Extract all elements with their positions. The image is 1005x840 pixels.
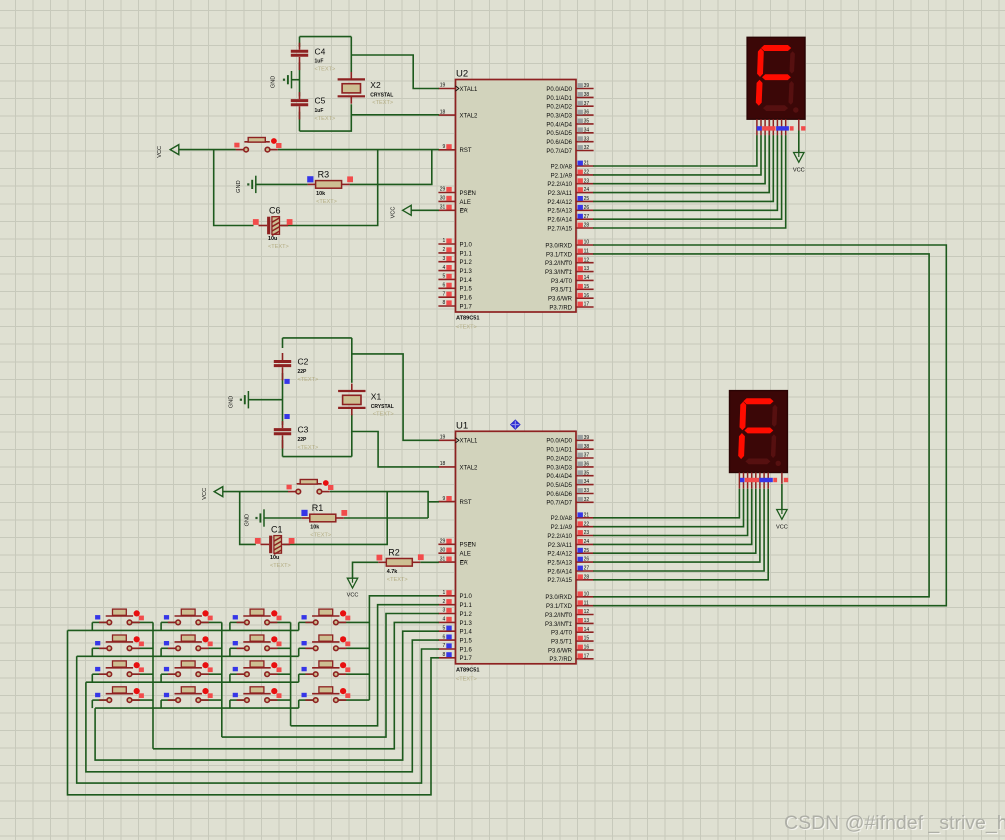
svg-text:P1.4: P1.4 [460, 278, 473, 284]
logic probe square C2 [284, 379, 289, 384]
svg-text:<TEXT>: <TEXT> [270, 563, 291, 569]
wire: keypad column 3 vertical [290, 622, 292, 725]
svg-text:U1: U1 [456, 420, 468, 431]
svg-text:P2.1/A9: P2.1/A9 [551, 525, 573, 531]
crystal X1 [338, 384, 394, 418]
svg-text:P3.1/TXD: P3.1/TXD [546, 604, 573, 610]
wire stub row3 col1 [91, 674, 93, 682]
svg-text:XTAL1: XTAL1 [460, 87, 479, 93]
wire: keypad row 1 line [68, 629, 299, 631]
svg-text:P1.5: P1.5 [460, 287, 473, 293]
wire P2.5 net (U1-display2) [593, 489, 760, 562]
button keypad row1 col2 [164, 609, 213, 625]
display1 pin stubs [757, 119, 799, 135]
svg-text:XTAL1: XTAL1 [460, 439, 479, 445]
wire: U2 XTAL2 net [351, 104, 439, 115]
svg-text:13: 13 [584, 618, 590, 624]
wire stub row1 col4 [298, 622, 300, 630]
svg-text:34: 34 [584, 479, 590, 485]
svg-text:24: 24 [584, 187, 590, 193]
wire: display1 common to VCC [798, 131, 800, 153]
resistor R2 [377, 548, 424, 583]
svg-text:3: 3 [443, 608, 446, 614]
svg-text:P3.6/WR: P3.6/WR [548, 297, 573, 303]
wire row3 col2 right [201, 673, 222, 675]
wire stub row1 col2 [160, 622, 162, 630]
svg-text:36: 36 [584, 110, 590, 116]
svg-text:P0.4/AD4: P0.4/AD4 [546, 122, 572, 128]
svg-text:P2.0/A8: P2.0/A8 [551, 516, 573, 522]
svg-text:33: 33 [584, 136, 590, 142]
svg-text:1uF: 1uF [315, 59, 324, 65]
svg-text:5: 5 [443, 625, 446, 631]
svg-text:P1.2: P1.2 [460, 612, 473, 618]
button keypad row3 col2 [164, 661, 213, 677]
wire: P1.2 to keypad column 2 [222, 614, 439, 738]
wire: keypad column 1 vertical [152, 622, 154, 748]
svg-text:P2.0/A8: P2.0/A8 [551, 164, 573, 170]
wire P2.4 net (U2-display1) [593, 135, 773, 201]
wire P2.1 net (U2-display1) [593, 135, 761, 175]
ground (R3) [236, 176, 256, 193]
svg-text:23: 23 [584, 530, 590, 536]
svg-text:VCC: VCC [347, 593, 359, 599]
svg-text:P2.5/A13: P2.5/A13 [547, 209, 572, 215]
svg-text:<TEXT>: <TEXT> [310, 533, 331, 539]
svg-text:12: 12 [584, 609, 590, 615]
svg-text:VCC: VCC [157, 146, 163, 158]
wire: U2 XTAL top rail [300, 36, 352, 38]
wire: C6 left drop [214, 150, 254, 226]
svg-text:P3.5/T1: P3.5/T1 [551, 640, 573, 646]
svg-text:P1.6: P1.6 [460, 296, 473, 302]
power VCC (U2 reset) [157, 145, 179, 158]
svg-text:30: 30 [440, 196, 446, 202]
svg-text:8: 8 [443, 300, 446, 306]
wire: C6 right to RST [281, 150, 378, 226]
svg-text:X2: X2 [370, 80, 381, 90]
wire row2 col1 right [133, 647, 154, 649]
wire: display2 common to VCC [781, 484, 783, 510]
svg-text:RST: RST [460, 500, 472, 506]
svg-text:38: 38 [584, 444, 590, 450]
logic probe square C3 [284, 414, 289, 419]
wire: keypad row 4 line [95, 707, 299, 709]
svg-text:P2.3/A11: P2.3/A11 [548, 543, 573, 549]
svg-text:GND: GND [229, 396, 235, 408]
ground (U1 caps) [229, 391, 249, 408]
svg-text:22: 22 [584, 170, 590, 176]
svg-text:12: 12 [584, 257, 590, 263]
display1 logic state squares [757, 126, 806, 130]
wire: U1 XTAL2 net [351, 414, 353, 457]
power VCC (R2) [347, 578, 359, 598]
svg-text:P3.2/INT0: P3.2/INT0 [545, 613, 573, 619]
wire P2.0 net (U2-display1) [593, 135, 757, 166]
svg-text:P0.7/AD7: P0.7/AD7 [546, 501, 572, 507]
svg-text:<TEXT>: <TEXT> [315, 67, 336, 73]
wire row2 col4 right [339, 647, 370, 649]
svg-text:29: 29 [440, 187, 446, 193]
wire stub row2 col2 [160, 648, 162, 656]
svg-text:26: 26 [584, 205, 590, 211]
svg-text:<TEXT>: <TEXT> [456, 325, 477, 331]
wire P2.6 net (U2-display1) [593, 135, 782, 219]
ground (U2 caps) [271, 71, 292, 88]
wire: P1.3 to keypad column 1 [153, 622, 439, 748]
svg-text:39: 39 [584, 435, 590, 441]
wire P2.1 net (U1-display2) [593, 489, 743, 527]
svg-text:XTAL2: XTAL2 [460, 465, 479, 471]
svg-text:CRYSTAL: CRYSTAL [371, 404, 394, 410]
svg-text:C2: C2 [298, 357, 309, 367]
svg-text:PSEN: PSEN [460, 543, 476, 549]
svg-text:P2.4/A12: P2.4/A12 [547, 552, 572, 558]
button (U2 reset) [234, 138, 281, 152]
svg-text:P3.3/INT1: P3.3/INT1 [545, 270, 573, 276]
wire stub row2 col4 [298, 648, 300, 656]
wire: keypad column 4 vertical (to P1.0) [369, 596, 439, 700]
wire P2.7 net (U1-display2) [593, 489, 768, 580]
wire row1 col2 right [201, 621, 222, 623]
svg-text:15: 15 [584, 284, 590, 290]
svg-text:P1.7: P1.7 [460, 304, 473, 310]
svg-text:1: 1 [443, 590, 446, 596]
wire P2.7 net (U2-display1) [593, 135, 786, 228]
button keypad row4 col3 [233, 687, 282, 703]
svg-text:27: 27 [584, 566, 590, 572]
power VCC (display2) [776, 510, 788, 531]
svg-text:10: 10 [584, 240, 590, 246]
svg-text:28: 28 [584, 574, 590, 580]
svg-text:P1.0: P1.0 [460, 594, 473, 600]
svg-text:P1.0: P1.0 [460, 242, 473, 248]
svg-text:CRYSTAL: CRYSTAL [370, 93, 393, 99]
svg-text:GND: GND [236, 180, 242, 192]
svg-text:2: 2 [443, 247, 446, 253]
wire row4 col2 right [201, 699, 222, 701]
resistor R1 [301, 503, 347, 538]
svg-text:<TEXT>: <TEXT> [373, 412, 394, 418]
svg-text:3: 3 [443, 256, 446, 262]
svg-text:23: 23 [584, 178, 590, 184]
svg-text:P0.3/AD3: P0.3/AD3 [546, 114, 572, 120]
svg-text:30: 30 [440, 547, 446, 553]
svg-text:P1.5: P1.5 [460, 639, 473, 645]
wire stub row2 col1 [91, 648, 93, 656]
wire: U2 RST line (pin side) [278, 149, 439, 151]
svg-text:VCC: VCC [202, 488, 208, 500]
svg-text:RST: RST [460, 148, 472, 154]
svg-text:1: 1 [443, 238, 446, 244]
svg-text:32: 32 [584, 497, 590, 503]
wire: U2 EA to VCC [411, 209, 439, 211]
wire row3 col1 right [133, 673, 154, 675]
svg-text:GND: GND [245, 514, 251, 526]
wire P2.5 net (U2-display1) [593, 135, 777, 210]
svg-text:2: 2 [443, 599, 446, 605]
button keypad row3 col4 [302, 661, 351, 677]
svg-text:EA: EA [460, 561, 468, 567]
wire: R1 gnd side [264, 517, 302, 519]
wire stub row4 col4 [298, 700, 300, 708]
button keypad row2 col2 [164, 635, 213, 651]
wire row1 col4 right [339, 621, 370, 623]
wire P2.2 net (U1-display2) [593, 489, 748, 536]
wire: P1.1 to keypad column 3 [291, 605, 439, 726]
button keypad row1 col3 [233, 609, 282, 625]
svg-text:17: 17 [584, 302, 590, 308]
wire: U1 RST line (pin side) [330, 492, 428, 518]
svg-text:C1: C1 [271, 525, 283, 535]
display2 logic state squares [740, 478, 788, 482]
svg-text:P3.0/RXD: P3.0/RXD [545, 243, 572, 249]
wire: U2 cap gnd branch [292, 79, 300, 81]
svg-text:15: 15 [584, 636, 590, 642]
svg-text:P0.1/AD1: P0.1/AD1 [546, 96, 572, 102]
svg-text:22P: 22P [298, 369, 308, 375]
7-segment display (bottom, U1) [730, 391, 788, 473]
origin marker (blue diamond) [511, 420, 521, 429]
capacitor C3 [274, 421, 319, 451]
wire row1 col1 right [133, 621, 154, 623]
svg-text:P2.5/A13: P2.5/A13 [547, 561, 572, 567]
wire stub row4 col2 [160, 700, 162, 708]
wire stub row1 col3 [229, 622, 231, 630]
wire: keypad column 2 vertical [221, 622, 223, 737]
svg-text:P0.3/AD3: P0.3/AD3 [546, 465, 572, 471]
svg-text:6: 6 [443, 283, 446, 289]
wire: keypad row 2 line [77, 655, 299, 657]
wire: R2 left to VCC [353, 562, 379, 578]
svg-text:16: 16 [584, 645, 590, 651]
svg-text:<TEXT>: <TEXT> [315, 116, 336, 122]
wire: U1 XTAL1 net [351, 338, 353, 383]
svg-text:<TEXT>: <TEXT> [298, 377, 319, 383]
svg-text:35: 35 [584, 119, 590, 125]
svg-text:P2.4/A12: P2.4/A12 [547, 200, 572, 206]
resistor R3 [307, 170, 353, 205]
svg-text:29: 29 [440, 539, 446, 545]
svg-text:P0.6/AD6: P0.6/AD6 [546, 492, 572, 498]
capacitor C4 [291, 43, 336, 73]
button keypad row3 col3 [233, 661, 282, 677]
svg-text:P0.2/AD2: P0.2/AD2 [546, 456, 572, 462]
button keypad row4 col4 [302, 687, 351, 703]
wire stub row3 col2 [160, 674, 162, 682]
svg-text:VCC: VCC [776, 525, 788, 531]
wire stub row1 col1 [91, 622, 93, 630]
svg-text:P0.6/AD6: P0.6/AD6 [546, 140, 572, 146]
wire row3 col4 right [339, 673, 370, 675]
svg-text:18: 18 [440, 461, 446, 467]
svg-text:P1.1: P1.1 [460, 251, 473, 257]
wire stub row4 col3 [229, 700, 231, 708]
button keypad row4 col1 [95, 687, 144, 703]
svg-text:P2.3/A11: P2.3/A11 [548, 191, 573, 197]
svg-text:VCC: VCC [793, 168, 805, 174]
svg-text:27: 27 [584, 214, 590, 220]
svg-text:P2.1/A9: P2.1/A9 [551, 173, 573, 179]
svg-text:C5: C5 [315, 96, 326, 106]
svg-text:R1: R1 [312, 503, 324, 513]
svg-text:26: 26 [584, 557, 590, 563]
svg-text:P2.2/A10: P2.2/A10 [547, 182, 572, 188]
svg-text:R2: R2 [388, 548, 400, 558]
svg-text:1uF: 1uF [315, 108, 324, 114]
svg-text:P0.0/AD0: P0.0/AD0 [546, 439, 572, 445]
svg-text:P1.3: P1.3 [460, 269, 473, 275]
wire: U1 RST line (VCC side) [223, 491, 288, 493]
wire P2.3 net (U1-display2) [593, 489, 752, 545]
crystal X2 [338, 72, 394, 106]
svg-text:U2: U2 [456, 69, 468, 80]
svg-text:10k: 10k [310, 525, 319, 531]
wire P2.2 net (U2-display1) [593, 135, 765, 183]
svg-text:17: 17 [584, 653, 590, 659]
svg-text:4.7k: 4.7k [387, 569, 398, 575]
svg-text:37: 37 [584, 101, 590, 107]
svg-text:19: 19 [440, 83, 446, 89]
svg-text:22P: 22P [298, 437, 308, 443]
svg-text:XTAL2: XTAL2 [460, 114, 479, 120]
button keypad row2 col1 [95, 635, 144, 651]
capacitor C5 [291, 92, 336, 122]
svg-text:P3.7/RD: P3.7/RD [549, 657, 572, 663]
svg-text:28: 28 [584, 223, 590, 229]
svg-text:<TEXT>: <TEXT> [316, 199, 337, 205]
wire row3 col3 right [270, 673, 291, 675]
wire: C1 left drop [240, 492, 256, 545]
wire: keypad row 3 line [86, 681, 299, 683]
svg-text:P1.6: P1.6 [460, 647, 473, 653]
svg-text:P3.0/RXD: P3.0/RXD [545, 595, 572, 601]
wire row4 col3 right [270, 699, 291, 701]
power VCC (display1) [793, 153, 805, 174]
svg-text:18: 18 [440, 109, 446, 115]
svg-text:6: 6 [443, 634, 446, 640]
svg-text:PSEN: PSEN [460, 191, 476, 197]
svg-text:10u: 10u [268, 236, 277, 242]
wire: U2 bottom rail [300, 115, 352, 131]
wire P2.3 net (U2-display1) [593, 135, 769, 192]
svg-text:P1.2: P1.2 [460, 260, 473, 266]
wire: U1 cap column [282, 338, 284, 457]
svg-text:P3.2/INT0: P3.2/INT0 [545, 261, 573, 267]
svg-text:P0.4/AD4: P0.4/AD4 [546, 474, 572, 480]
svg-text:C3: C3 [298, 425, 309, 435]
svg-text:25: 25 [584, 548, 590, 554]
power VCC (U1 reset) [202, 487, 223, 500]
svg-text:21: 21 [584, 161, 590, 167]
svg-text:P0.0/AD0: P0.0/AD0 [546, 87, 572, 93]
wire row4 col1 right [133, 699, 154, 701]
svg-text:21: 21 [584, 512, 590, 518]
svg-text:4: 4 [443, 265, 446, 271]
button keypad row1 col1 [95, 609, 144, 625]
wire: U2 RST line (VCC side) [179, 149, 236, 151]
svg-text:16: 16 [584, 293, 590, 299]
wire: R2 to EA [420, 561, 439, 563]
button keypad row2 col3 [233, 635, 282, 651]
svg-text:5: 5 [443, 274, 446, 280]
button keypad row4 col2 [164, 687, 213, 703]
svg-text:ALE: ALE [460, 200, 471, 206]
svg-text:P1.1: P1.1 [460, 603, 473, 609]
display2 pin stubs [739, 473, 782, 489]
wire: P1.7 to keypad row 1 [68, 630, 439, 794]
svg-text:<TEXT>: <TEXT> [456, 676, 477, 682]
wire stub row2 col3 [229, 648, 231, 656]
svg-text:P2.7/A15: P2.7/A15 [547, 226, 572, 232]
svg-text:P3.4/T0: P3.4/T0 [551, 279, 573, 285]
wire: U1 bottom rail [283, 456, 352, 458]
7-segment display (top, U2) [747, 37, 805, 119]
svg-text:37: 37 [584, 453, 590, 459]
svg-text:P0.7/AD7: P0.7/AD7 [546, 149, 572, 155]
svg-text:CSDN @#ifndef _strive_h: CSDN @#ifndef _strive_h [784, 812, 1005, 834]
svg-text:7: 7 [443, 643, 446, 649]
svg-text:P2.6/A14: P2.6/A14 [547, 218, 572, 224]
svg-text:P1.3: P1.3 [460, 621, 473, 627]
capacitor C1 [255, 525, 295, 569]
svg-text:ALE: ALE [460, 552, 471, 558]
svg-text:14: 14 [584, 627, 590, 633]
svg-text:X1: X1 [371, 392, 382, 402]
IC U1 AT89C51 [438, 420, 593, 682]
svg-text:P3.3/INT1: P3.3/INT1 [545, 622, 573, 628]
capacitor C6 [253, 206, 293, 250]
wire: R3 to RST riser [350, 150, 432, 185]
svg-text:P2.6/A14: P2.6/A14 [547, 569, 572, 575]
svg-text:P0.1/AD1: P0.1/AD1 [546, 448, 572, 454]
svg-text:14: 14 [584, 275, 590, 281]
svg-text:R3: R3 [318, 170, 330, 180]
svg-text:P3.5/T1: P3.5/T1 [551, 288, 573, 294]
wire row1 col3 right [270, 621, 291, 623]
wire stub row4 col1 [91, 700, 93, 708]
wire stub row3 col3 [229, 674, 231, 682]
button keypad row3 col1 [95, 661, 144, 677]
wire: U1 cap gnd branch [248, 399, 282, 401]
button keypad row2 col4 [302, 635, 351, 651]
svg-text:31: 31 [440, 205, 446, 211]
svg-text:P3.6/WR: P3.6/WR [548, 648, 573, 654]
svg-text:C6: C6 [269, 206, 281, 216]
svg-text:EA: EA [460, 209, 468, 215]
ground (R1) [245, 509, 265, 526]
svg-text:<TEXT>: <TEXT> [298, 445, 319, 451]
svg-text:4: 4 [443, 617, 446, 623]
svg-text:P1.7: P1.7 [460, 656, 473, 662]
svg-text:<TEXT>: <TEXT> [268, 244, 289, 250]
svg-text:GND: GND [271, 76, 277, 88]
svg-text:24: 24 [584, 539, 590, 545]
svg-text:P2.7/A15: P2.7/A15 [547, 578, 572, 584]
wire P2.4 net (U1-display2) [593, 489, 756, 553]
svg-text:9: 9 [443, 496, 446, 502]
svg-text:39: 39 [584, 83, 590, 89]
wire: U1 XTAL top rail [283, 337, 352, 339]
svg-text:P0.5/AD5: P0.5/AD5 [546, 483, 572, 489]
svg-text:<TEXT>: <TEXT> [387, 577, 408, 583]
wire row2 col3 right [270, 647, 291, 649]
svg-text:19: 19 [440, 435, 446, 441]
svg-text:P3.7/RD: P3.7/RD [549, 305, 572, 311]
svg-text:38: 38 [584, 92, 590, 98]
wire: P1.5 to keypad row 3 [86, 640, 439, 772]
svg-text:8: 8 [443, 652, 446, 658]
